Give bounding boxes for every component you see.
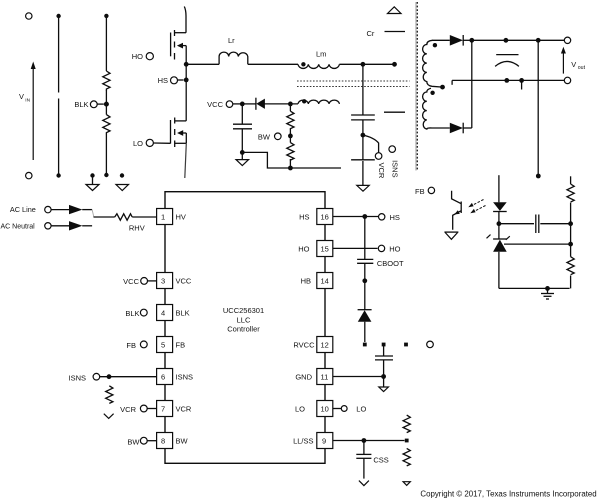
svg-text:HS: HS [158, 76, 168, 85]
svg-text:IN: IN [25, 97, 30, 103]
svg-text:Controller: Controller [227, 324, 260, 333]
pin 7 [157, 401, 192, 417]
pin 8 [157, 433, 189, 449]
resistor BLK upper divider [103, 14, 110, 104]
svg-text:AC Neutral: AC Neutral [1, 224, 36, 231]
resistor BLK lower divider [103, 104, 110, 177]
pin 12 [293, 337, 332, 353]
winding secondary top [423, 40, 443, 87]
svg-text:4: 4 [161, 309, 165, 318]
svg-text:FB: FB [126, 341, 136, 350]
svg-text:CSS: CSS [373, 456, 388, 465]
diode opto LED [493, 175, 507, 224]
node VCC cap ground junction [240, 150, 245, 155]
wire HO pin15 [333, 244, 401, 253]
capacitor VCC [233, 104, 252, 152]
pin 5 [157, 337, 185, 353]
ground left B [116, 173, 129, 190]
node switch-node junction [184, 62, 189, 67]
wire HS pin16 [333, 213, 400, 222]
svg-text:ISNS: ISNS [68, 374, 86, 383]
svg-text:VCR: VCR [176, 405, 192, 414]
svg-text:HS: HS [299, 213, 309, 222]
capacitor ISNS lower [351, 135, 375, 185]
wire center tap elbow [451, 80, 453, 84]
transistor Q1 high-side FET [171, 7, 187, 65]
resistor BW lower [287, 136, 294, 171]
svg-text:RVCC: RVCC [293, 341, 315, 350]
wire GND pin11 [333, 374, 386, 379]
node BLK junction [104, 102, 109, 107]
diode bootstrap [358, 281, 372, 347]
svg-text:ISNS: ISNS [390, 160, 399, 178]
wire Vout+ rail [472, 37, 571, 43]
svg-text:8: 8 [161, 437, 165, 446]
svg-text:Lm: Lm [316, 50, 326, 59]
pin 16 [299, 209, 333, 225]
wire FB bottom [499, 286, 570, 291]
svg-text:HO: HO [132, 52, 143, 61]
node BW junction top [288, 102, 293, 107]
svg-text:11: 11 [321, 373, 329, 382]
node VCC junction [240, 102, 245, 107]
capacitor comp [499, 215, 571, 234]
HO terminal [132, 52, 154, 61]
shunt regulator TL431 [487, 224, 510, 289]
pin 11 [295, 369, 332, 385]
svg-text:VCR: VCR [377, 163, 386, 179]
node BW mid [288, 134, 293, 139]
wire sense branch vertical [362, 64, 364, 115]
svg-text:BW: BW [127, 437, 140, 446]
svg-text:10: 10 [321, 405, 329, 414]
VCR terminal pin7 [120, 405, 156, 414]
svg-text:VCC: VCC [123, 277, 139, 286]
diode D2 bottom rectifier [450, 123, 463, 134]
FB terminal pin5 [126, 341, 147, 350]
resistor LLSS upper [403, 415, 410, 433]
svg-text:7: 7 [161, 405, 165, 414]
ground ISNS [104, 414, 114, 419]
svg-text:UCC256301: UCC256301 [223, 306, 264, 315]
svg-text:VCC: VCC [176, 277, 192, 286]
wire AC Line input [10, 205, 92, 214]
node RVCC square [382, 343, 386, 347]
resistor FB divider lower [567, 244, 574, 288]
node comp cap junction [568, 221, 573, 226]
wire LLSS pin9 [333, 438, 408, 443]
transistor Q2 low-side FET [171, 118, 187, 179]
node HS tap [184, 78, 189, 83]
resistor FB divider upper [567, 176, 574, 244]
pin 14 [301, 273, 333, 289]
optocoupler transistor [452, 191, 462, 230]
svg-text:V: V [19, 92, 24, 101]
LO terminal [133, 139, 171, 148]
node center tap [440, 85, 445, 90]
capacitor Cout [495, 55, 519, 67]
capacitor RVCC [375, 346, 393, 377]
svg-text:HV: HV [176, 213, 186, 222]
svg-text:BLK: BLK [176, 309, 190, 318]
ground CSS [359, 481, 369, 486]
wire AC to RHV [92, 210, 94, 217]
inductor Lm [298, 50, 339, 69]
svg-text:Copyright © 2017, Texas Instru: Copyright © 2017, Texas Instruments Inco… [420, 490, 596, 499]
svg-text:15: 15 [321, 245, 329, 254]
svg-text:6: 6 [161, 373, 165, 382]
HS terminal [158, 76, 184, 85]
wire VCC ground run [242, 152, 341, 168]
capacitor ISNS upper [351, 115, 375, 135]
node aux square [404, 343, 408, 347]
capacitor Cr [367, 7, 406, 38]
node Vin- terminal [26, 172, 32, 178]
svg-text:VCR: VCR [120, 405, 136, 414]
svg-text:HB: HB [301, 277, 311, 286]
svg-text:Cr: Cr [367, 29, 375, 38]
wire FB feed [536, 40, 541, 178]
ISNS terminal pin6 [68, 373, 156, 382]
svg-text:12: 12 [321, 341, 329, 350]
svg-text:5: 5 [161, 341, 165, 350]
transformer core dashes [297, 2, 417, 171]
node aux terminal [427, 341, 434, 348]
svg-text:BLK: BLK [125, 309, 139, 318]
ground GND pin [379, 377, 389, 392]
svg-text:LO: LO [295, 405, 305, 414]
VCC terminal top [207, 100, 242, 109]
inductor Lr [219, 36, 248, 64]
IC U1 outline [165, 192, 325, 464]
resistor ISNS [106, 386, 113, 404]
ground optocoupler [444, 232, 458, 239]
svg-text:HO: HO [389, 244, 400, 253]
svg-text:9: 9 [322, 437, 326, 446]
svg-text:BW: BW [176, 437, 189, 446]
svg-text:Lr: Lr [228, 36, 235, 45]
svg-text:1: 1 [161, 213, 165, 222]
svg-text:14: 14 [321, 277, 329, 286]
svg-text:BLK: BLK [74, 100, 88, 109]
IC U1 label [223, 306, 264, 333]
capacitor CBOOT [357, 217, 404, 281]
svg-text:AC Line: AC Line [10, 205, 36, 214]
wire TL431 ref [504, 243, 571, 245]
svg-text:LL/SS: LL/SS [293, 437, 313, 446]
svg-text:CBOOT: CBOOT [377, 259, 404, 268]
ground sense branch [357, 185, 369, 191]
diode D-VCC [242, 98, 298, 110]
pin 6 [157, 369, 193, 385]
VCC terminal pin3 [123, 277, 156, 286]
Vin arrow [19, 62, 36, 161]
ground left A [86, 173, 99, 190]
Vout arrow [561, 47, 586, 74]
inductor aux winding [298, 99, 339, 104]
optocoupler light arrows [468, 200, 485, 214]
winding secondary bottom [423, 88, 450, 129]
pin 3 [157, 273, 192, 289]
ISNS terminal [389, 146, 399, 178]
wire HS vertical [185, 64, 187, 121]
svg-text:FB: FB [176, 341, 186, 350]
pin 1 [157, 209, 186, 225]
ground VCC [236, 152, 249, 165]
wire aux end mark [384, 111, 405, 113]
pin 10 [295, 401, 333, 417]
svg-text:LO: LO [356, 404, 366, 413]
node VCR tap [361, 133, 366, 138]
svg-text:GND: GND [295, 373, 312, 382]
resistor BW upper [287, 104, 294, 136]
svg-text:LO: LO [133, 139, 143, 148]
svg-text:V: V [571, 60, 576, 69]
ground LLSS divider [403, 482, 410, 486]
svg-text:16: 16 [321, 213, 329, 222]
diode D1 top rectifier [432, 35, 463, 46]
svg-text:BW: BW [258, 132, 271, 141]
FB terminal secondary [415, 187, 435, 196]
BW terminal top [258, 132, 281, 141]
svg-text:HO: HO [298, 245, 309, 254]
svg-text:HS: HS [390, 213, 400, 222]
svg-text:FB: FB [415, 187, 425, 196]
resistor RHV [94, 214, 157, 233]
ground earth FB [541, 288, 554, 299]
node LED cathode junction [497, 221, 502, 226]
BLK terminal pin4 [125, 309, 147, 318]
wire rectifier bus [463, 38, 474, 128]
wire AC Neutral input [1, 221, 93, 230]
wire input bus [56, 14, 60, 178]
wire Lm to primary node [339, 62, 397, 67]
node sense branch junction [361, 62, 366, 67]
svg-text:out: out [578, 65, 586, 71]
wire Vout- rail [452, 77, 571, 89]
svg-text:RHV: RHV [129, 224, 145, 233]
resistor LLSS lower [403, 448, 410, 466]
wire HS node [186, 63, 219, 65]
VCR terminal [363, 135, 386, 179]
BLK terminal [74, 100, 103, 109]
node HB junction [362, 278, 367, 283]
pin 15 [298, 241, 333, 257]
svg-text:3: 3 [161, 277, 165, 286]
pin 9 [293, 433, 333, 449]
svg-text:ISNS: ISNS [176, 373, 194, 382]
capacitor CSS [356, 441, 389, 479]
node ref junction [568, 242, 573, 247]
svg-text:LLC: LLC [237, 315, 251, 324]
node Vin+ terminal [26, 13, 32, 19]
svg-text:VCC: VCC [207, 100, 223, 109]
BW terminal pin8 [127, 437, 156, 446]
wire Lr to Lm [248, 63, 298, 65]
wire LO pin10 [333, 404, 367, 413]
pin 4 [157, 305, 190, 321]
